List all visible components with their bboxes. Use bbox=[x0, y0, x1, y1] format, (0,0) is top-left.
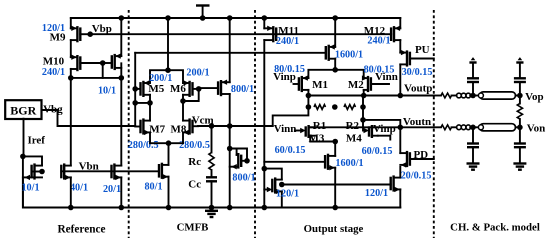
resistor series Rn bbox=[441, 125, 457, 130]
net Vbn line bbox=[61, 161, 159, 173]
net Vinp label (M4) bbox=[373, 123, 396, 135]
svg-text:Vinp: Vinp bbox=[373, 123, 396, 135]
svg-text:Vinp: Vinp bbox=[273, 71, 296, 83]
section divider Output|Channel bbox=[433, 10, 435, 238]
value 1600/1 (P1600a) bbox=[335, 49, 363, 60]
svg-text:120/1: 120/1 bbox=[42, 23, 65, 34]
transistor P1600a 1600/1 bbox=[326, 15, 338, 72]
transistor M2 80/0.15 bbox=[362, 75, 389, 92]
wire M5 drain bbox=[147, 95, 153, 121]
svg-text:Voutp: Voutp bbox=[404, 82, 432, 94]
value 10/1 (N1) bbox=[21, 183, 39, 194]
transistor M5 200/1 bbox=[135, 80, 150, 97]
label CMFB bbox=[177, 222, 209, 234]
transistor Mt 80/1 bbox=[159, 163, 169, 180]
wire M5-M6 source bracket bbox=[150, 15, 183, 83]
svg-text:CMFB: CMFB bbox=[177, 222, 209, 234]
wire N2 source bbox=[68, 177, 74, 210]
svg-text:Voutn: Voutn bbox=[403, 116, 431, 128]
value 240/1 (M11) bbox=[276, 36, 299, 47]
label PU bbox=[415, 44, 430, 56]
node pad n bbox=[470, 125, 479, 131]
svg-text:Vinn: Vinn bbox=[274, 123, 297, 135]
transistor PD 20/0.15 bbox=[400, 127, 434, 167]
svg-text:10/1: 10/1 bbox=[21, 183, 39, 194]
svg-text:60/0.15: 60/0.15 bbox=[362, 146, 393, 157]
capacitor C2 (Vop-pad to VDD) bbox=[514, 57, 526, 95]
value 200/1 (M6) bbox=[186, 68, 209, 79]
capacitor C4 (Von-pad to gnd) bbox=[513, 127, 526, 169]
svg-text:1600/1: 1600/1 bbox=[335, 158, 363, 169]
net Vinn label (M3) bbox=[274, 123, 297, 135]
svg-text:200/1: 200/1 bbox=[186, 68, 209, 79]
BGR block bbox=[5, 100, 41, 119]
node Vop bbox=[516, 93, 523, 99]
value 80/0.15 (M2) bbox=[364, 65, 395, 76]
label M10 bbox=[43, 56, 65, 68]
net 1600-gate line bbox=[135, 52, 326, 54]
svg-text:120/1: 120/1 bbox=[365, 188, 388, 199]
svg-text:80/1: 80/1 bbox=[144, 182, 162, 193]
label CH. & Pack. model bbox=[450, 222, 540, 234]
wire CMFB out to bias column bbox=[132, 100, 150, 106]
svg-text:1600/1: 1600/1 bbox=[335, 49, 363, 60]
node Iref bbox=[20, 154, 26, 160]
transistor PU 30/0.15 bbox=[400, 50, 434, 96]
label M3 bbox=[309, 133, 325, 145]
svg-text:240/1: 240/1 bbox=[367, 36, 390, 47]
transistor M12 240/1 bbox=[391, 18, 400, 42]
wire Cc to rail bbox=[209, 181, 215, 210]
wire channel feed (p) bbox=[434, 95, 441, 97]
net Vbp line bbox=[90, 33, 391, 35]
resistor R2 bbox=[344, 105, 360, 132]
transistor N2 40/1 bbox=[61, 163, 71, 180]
svg-text:M4: M4 bbox=[346, 133, 362, 145]
transistor Mn1 120/1 bbox=[264, 169, 284, 208]
transistor P800a 800/1 bbox=[199, 80, 230, 97]
svg-text:120/1: 120/1 bbox=[276, 188, 299, 199]
label M4 bbox=[346, 133, 362, 145]
value 200/1 (M5) bbox=[149, 73, 172, 84]
transistor M6 200/1 bbox=[183, 80, 199, 97]
label M5 bbox=[148, 83, 164, 95]
transistor M3 60/0.15 bbox=[295, 125, 315, 138]
net Vop label bbox=[525, 91, 544, 103]
svg-text:240/1: 240/1 bbox=[42, 67, 65, 78]
svg-text:10/1: 10/1 bbox=[98, 86, 116, 97]
transmission line Tp bbox=[478, 92, 515, 99]
transistor N1 10/1 bbox=[23, 156, 45, 207]
svg-text:800/1: 800/1 bbox=[231, 84, 254, 95]
svg-text:M8: M8 bbox=[170, 124, 186, 136]
transistor P800b 800/1 bbox=[230, 149, 250, 170]
wire bias column bbox=[132, 53, 138, 126]
net Vcm label bbox=[192, 115, 214, 127]
label PD bbox=[413, 149, 428, 161]
svg-text:R1: R1 bbox=[313, 120, 326, 132]
svg-text:Reference: Reference bbox=[57, 224, 105, 236]
capacitor C3 (Von to gnd) bbox=[467, 127, 480, 169]
net Von label bbox=[527, 122, 546, 134]
svg-text:Rc: Rc bbox=[188, 156, 201, 168]
capacitor Cc bbox=[188, 177, 217, 190]
value 120/1 (Mn2) bbox=[365, 188, 388, 199]
transistor M10 240/1 bbox=[71, 55, 103, 78]
svg-text:Von: Von bbox=[527, 122, 546, 134]
transistor N3 20/1 bbox=[112, 163, 122, 180]
svg-text:Vop: Vop bbox=[525, 91, 544, 103]
node Von bbox=[516, 125, 523, 131]
resistor R1 bbox=[313, 105, 326, 132]
node pad p bbox=[470, 93, 479, 99]
svg-text:40/1: 40/1 bbox=[70, 183, 88, 194]
value 20/1 (N3) bbox=[103, 184, 121, 195]
svg-text:M6: M6 bbox=[170, 83, 186, 95]
svg-text:BGR: BGR bbox=[10, 103, 36, 117]
svg-text:30/0.15: 30/0.15 bbox=[402, 67, 433, 78]
VDD top rail bbox=[71, 17, 401, 19]
wire tail source bbox=[166, 177, 172, 211]
label M8 bbox=[170, 124, 186, 136]
wire R1 left drop bbox=[306, 96, 312, 110]
wire N3 drain bbox=[120, 63, 122, 165]
wire R2 right drop bbox=[360, 96, 366, 110]
VDD supply symbol bbox=[196, 6, 210, 21]
wire channel feed (n) bbox=[434, 126, 441, 128]
label M2 bbox=[348, 79, 364, 91]
value 30/0.15 (PU) bbox=[402, 67, 433, 78]
wire Vcm to Rc bbox=[211, 126, 213, 153]
wire M1-M2 source bracket bbox=[308, 70, 363, 78]
resistor Rterm bbox=[517, 96, 522, 128]
value 80/1 (Mt) bbox=[144, 182, 162, 193]
label M7 bbox=[149, 124, 165, 136]
transistor M7 280/0.5 bbox=[135, 118, 150, 135]
value 280/0.5 (M7) bbox=[128, 140, 159, 151]
net mirror gate line bbox=[282, 184, 391, 186]
wire N3 source bbox=[119, 177, 125, 210]
svg-text:M5: M5 bbox=[148, 83, 164, 95]
svg-text:60/0.15: 60/0.15 bbox=[275, 145, 306, 156]
value 240/1 (M10) bbox=[42, 67, 65, 78]
svg-text:20/1: 20/1 bbox=[103, 184, 121, 195]
value 60/0.15 (M3) bbox=[275, 145, 306, 156]
node M6 gate-drain bbox=[180, 86, 201, 104]
net Vinp label bbox=[273, 71, 296, 83]
transistor M8 280/0.5 bbox=[183, 118, 198, 135]
value 60/0.15 (M4) bbox=[362, 146, 393, 157]
svg-text:PU: PU bbox=[415, 44, 430, 56]
value 80/0.15 (M1) bbox=[274, 64, 305, 75]
label M1 bbox=[312, 79, 328, 91]
svg-text:20/0.15: 20/0.15 bbox=[401, 170, 432, 181]
net Vcm line bbox=[198, 123, 273, 129]
wire M2 drain bbox=[363, 90, 365, 96]
wire M3 source bbox=[310, 136, 338, 145]
svg-text:Vinn: Vinn bbox=[375, 71, 398, 83]
label Output stage bbox=[304, 223, 364, 235]
net Voutn label bbox=[403, 116, 431, 128]
wire N2 drain bbox=[70, 78, 72, 166]
transistor M9 120/1 bbox=[71, 18, 93, 57]
value 120/1 (Mn1) bbox=[276, 188, 299, 199]
svg-text:Iref: Iref bbox=[27, 135, 45, 147]
wire R2 to M4 gate bbox=[360, 107, 400, 133]
resistor series Rp bbox=[441, 93, 457, 98]
value 280/0.5 (M8) bbox=[179, 140, 210, 151]
svg-text:Output stage: Output stage bbox=[304, 223, 364, 235]
svg-text:240/1: 240/1 bbox=[276, 36, 299, 47]
svg-text:R2: R2 bbox=[346, 120, 360, 132]
value 240/1 (M12) bbox=[367, 36, 390, 47]
wire 800-top drain bbox=[227, 94, 233, 210]
wire M6 drain bbox=[182, 95, 184, 121]
wire mirror drain bus bbox=[71, 75, 124, 81]
svg-text:M1: M1 bbox=[312, 79, 328, 91]
value 20/0.15 (PD) bbox=[401, 170, 432, 181]
wire M12 drain bbox=[399, 40, 401, 53]
wire 800-top source bbox=[227, 15, 233, 82]
transistor M11 240/1 bbox=[264, 26, 276, 43]
transistor P1600b 1600/1 bbox=[264, 142, 338, 211]
svg-text:280/0.5: 280/0.5 bbox=[128, 140, 159, 151]
inductor Ln bbox=[457, 125, 471, 130]
net Voutn line bbox=[309, 125, 434, 131]
wire M11 drain bbox=[262, 40, 268, 210]
wire M11 column bbox=[262, 15, 268, 28]
svg-text:Cc: Cc bbox=[188, 179, 201, 191]
section divider Reference|CMFB bbox=[128, 10, 130, 238]
section divider CMFB|Output bbox=[254, 10, 256, 238]
transistor P4 10/1 bbox=[100, 15, 124, 78]
wire tail drain bbox=[168, 143, 170, 165]
value 40/1 (N2) bbox=[70, 183, 88, 194]
svg-text:Vbn: Vbn bbox=[79, 161, 99, 173]
node M10 drain bbox=[68, 75, 74, 81]
net Iref label bbox=[27, 135, 45, 147]
transistor M4 60/0.15 bbox=[369, 125, 390, 140]
label M9 bbox=[50, 32, 66, 44]
svg-text:CH. & Pack. model: CH. & Pack. model bbox=[450, 222, 540, 234]
svg-text:Vbp: Vbp bbox=[92, 23, 112, 35]
transmission line Tn bbox=[478, 124, 515, 131]
net Vbp label bbox=[92, 23, 112, 35]
wire Rc-Cc bbox=[211, 170, 213, 177]
svg-text:PD: PD bbox=[413, 149, 428, 161]
transistor Mn2 120/1 bbox=[391, 167, 401, 208]
capacitor C1 (Vop to VDD) bbox=[467, 57, 479, 95]
net Voutp label bbox=[404, 82, 432, 94]
value 800/1 (P800a) bbox=[231, 84, 254, 95]
svg-text:M10: M10 bbox=[43, 56, 65, 68]
wire Vcm sense bbox=[273, 107, 309, 126]
svg-text:800/1: 800/1 bbox=[232, 173, 255, 184]
label M6 bbox=[170, 83, 186, 95]
ground symbol (bottom rail) bbox=[205, 208, 218, 218]
node R1-R2 center bbox=[332, 104, 338, 110]
svg-text:M2: M2 bbox=[348, 79, 364, 91]
transistor M1 80/0.15 bbox=[294, 75, 309, 92]
svg-text:M7: M7 bbox=[149, 124, 165, 136]
value 800/1 (P800b) bbox=[232, 173, 255, 184]
value 120/1 (M9) bbox=[42, 23, 65, 34]
wire Iref vertical bbox=[23, 119, 25, 157]
net Voutp line bbox=[306, 93, 434, 99]
wire M1 drain bbox=[307, 90, 309, 96]
wire Vbg from BGR bbox=[42, 110, 136, 126]
label Reference bbox=[57, 224, 105, 236]
inductor Lp bbox=[457, 93, 471, 98]
svg-text:200/1: 200/1 bbox=[149, 73, 172, 84]
label M11 bbox=[278, 25, 299, 37]
resistor Rc bbox=[188, 153, 214, 171]
value 10/1 (P4) bbox=[98, 86, 116, 97]
wire M7-M8 sources bbox=[150, 132, 183, 146]
net Vinn label bbox=[375, 71, 398, 83]
value 1600/1 (P1600b) bbox=[335, 158, 363, 169]
ground bottom rail bbox=[23, 156, 400, 207]
label M12 bbox=[364, 25, 386, 37]
net Vbg label bbox=[43, 104, 63, 116]
